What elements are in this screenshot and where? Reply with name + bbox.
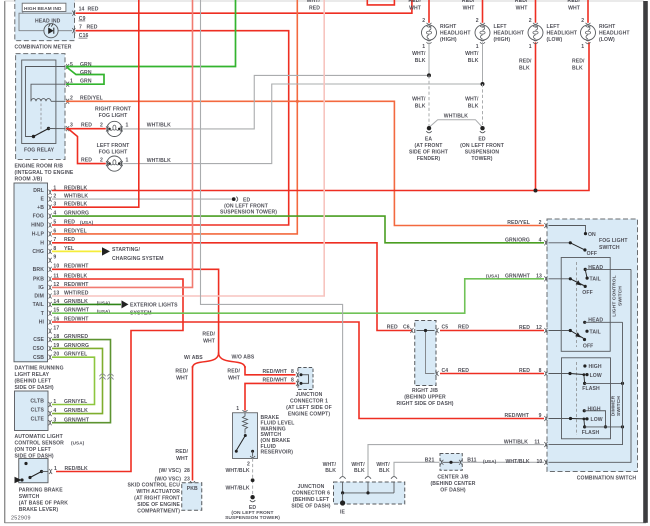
combination switch dashed box	[547, 219, 638, 472]
svg-text:HEADLIGHT: HEADLIGHT	[547, 31, 578, 37]
wire WHT/BLK center J/B to jc6	[394, 462, 440, 476]
comb sw pin 2 chevrons	[544, 223, 547, 228]
svg-text:ENGINE ROOM R/B: ENGINE ROOM R/B	[15, 163, 64, 169]
svg-text:IE: IE	[340, 509, 346, 515]
wire row2 E WHT/BLK to ground ED	[52, 198, 232, 200]
svg-text:FOG: FOG	[33, 214, 44, 220]
svg-text:COMBINATION METER: COMBINATION METER	[15, 44, 72, 50]
svg-text:8: 8	[539, 368, 542, 374]
cut stub red U at top	[367, 0, 394, 5]
page border top	[5, 0, 645, 2]
svg-text:RED/WHT: RED/WHT	[263, 369, 288, 375]
parking brake switch internals	[24, 462, 27, 465]
svg-text:JUNCTION: JUNCTION	[296, 392, 323, 398]
svg-text:RED: RED	[519, 325, 530, 331]
svg-text:1: 1	[476, 44, 479, 50]
svg-text:(AT FRONT: (AT FRONT	[415, 143, 444, 149]
svg-text:(LOW): (LOW)	[599, 37, 615, 43]
svg-text:(HIGH): (HIGH)	[494, 37, 511, 43]
dashed wire WHT/BLK to ED ground	[482, 84, 484, 127]
svg-text:RED/: RED/	[519, 59, 532, 65]
relay pin 5 connector	[66, 64, 69, 69]
wire high beam box to pin 14	[23, 12, 72, 14]
svg-text:1: 1	[53, 399, 56, 405]
relay pin 3 connector	[66, 126, 69, 131]
svg-text:LEFT: LEFT	[547, 24, 561, 30]
svg-text:RED: RED	[81, 157, 92, 163]
parking brake switch box	[19, 459, 48, 483]
svg-text:RED: RED	[519, 368, 530, 374]
svg-text:CONTROL SENSOR: CONTROL SENSOR	[15, 441, 65, 447]
svg-text:8: 8	[291, 369, 294, 375]
page border right thick bar	[643, 1, 648, 523]
relay coil	[31, 99, 51, 102]
parking brake ground arrow	[15, 477, 22, 483]
svg-text:2: 2	[100, 122, 103, 128]
svg-text:OFF: OFF	[582, 290, 593, 296]
svg-text:BLK: BLK	[354, 468, 365, 474]
svg-text:HIGH: HIGH	[589, 364, 602, 370]
svg-text:(BEHIND LEFT: (BEHIND LEFT	[15, 378, 52, 384]
svg-text:GRN/WHT: GRN/WHT	[505, 274, 531, 280]
svg-text:RED/: RED/	[175, 449, 188, 455]
wire WHT/BLK right front fog	[123, 75, 429, 128]
wire row3 +B RED/BLK to top	[52, 0, 139, 207]
bus head2 down to pin 11	[549, 322, 623, 444]
svg-text:9: 9	[539, 413, 542, 419]
svg-text:HEADLIGHT: HEADLIGHT	[599, 31, 630, 37]
relay wire pin 1 to coil	[31, 84, 66, 101]
svg-text:WHT/BLK: WHT/BLK	[147, 158, 171, 164]
svg-text:SWITCH: SWITCH	[19, 494, 40, 500]
wire row19 CSO GRN/ORG to CLTS	[52, 348, 103, 413]
svg-text:RIGHT SIDE OF DASH): RIGHT SIDE OF DASH)	[396, 401, 453, 407]
svg-text:1: 1	[422, 44, 425, 50]
svg-text:RIGHT FRONT: RIGHT FRONT	[95, 107, 132, 113]
lcs2 head to bus	[585, 321, 623, 323]
jc6 internal bus	[343, 492, 394, 494]
svg-text:GRN/BLK: GRN/BLK	[64, 408, 88, 414]
svg-text:CENTER J/B: CENTER J/B	[437, 474, 469, 480]
svg-text:(ON TOP LEFT: (ON TOP LEFT	[15, 447, 52, 453]
svg-text:RED/WHT: RED/WHT	[263, 378, 288, 384]
svg-text:FOG LIGHT: FOG LIGHT	[599, 238, 628, 244]
light control switch inner box	[561, 258, 610, 352]
svg-text:BRAKE LEVER): BRAKE LEVER)	[19, 507, 59, 513]
splice dot	[251, 478, 255, 482]
svg-text:RED: RED	[309, 5, 320, 11]
svg-text:1: 1	[529, 44, 532, 50]
svg-text:5: 5	[53, 219, 56, 225]
svg-text:8: 8	[291, 378, 294, 384]
center J/B internal bus	[443, 461, 460, 463]
junction connector 1 box	[298, 368, 313, 390]
svg-text:CHARGING SYSTEM: CHARGING SYSTEM	[112, 256, 164, 262]
svg-text:TAIL: TAIL	[33, 302, 44, 308]
svg-text:WHT/BLK: WHT/BLK	[506, 459, 530, 465]
wire row11 PKB RED/BLK to parking brake switch	[52, 279, 183, 472]
svg-text:ROOM J/B): ROOM J/B)	[15, 176, 43, 182]
relay wire pin 5 to switch common	[26, 67, 66, 137]
wire WHT/BLK from top to junction connector 6	[201, 0, 343, 476]
page border left	[4, 1, 6, 523]
svg-text:AUTOMATIC LIGHT: AUTOMATIC LIGHT	[15, 434, 64, 440]
relay switch arm	[34, 129, 49, 137]
svg-text:GRN/YEL: GRN/YEL	[64, 399, 87, 405]
svg-text:STARTING/: STARTING/	[112, 247, 140, 253]
C5 pin chevrons	[435, 328, 438, 333]
svg-text:GRN/ORG: GRN/ORG	[505, 237, 530, 243]
svg-text:BLK: BLK	[415, 58, 426, 64]
svg-text:HIGH BEAM IND: HIGH BEAM IND	[24, 6, 62, 11]
svg-text:WHT: WHT	[176, 376, 189, 382]
svg-text:WHT/: WHT/	[465, 97, 479, 103]
ABS split branches	[193, 353, 219, 369]
svg-text:2: 2	[422, 18, 425, 24]
ground bridge WHT/BLK	[429, 120, 483, 128]
wire W/ ABS branch down to skid control PKB	[192, 366, 194, 481]
wire row4 FOG GRN/ORG to combination switch pin 4	[52, 216, 544, 243]
right front fog light bulb	[106, 121, 123, 136]
svg-text:BLK: BLK	[572, 66, 583, 72]
svg-text:ED: ED	[478, 136, 485, 142]
svg-text:WHT: WHT	[409, 5, 422, 11]
wire RED/YEL relay pin2 across	[66, 101, 544, 225]
page border bottom	[5, 522, 647, 524]
svg-text:17: 17	[53, 325, 59, 331]
brake fluid level warning switch box	[233, 413, 258, 459]
splice symbol on CSE riser	[108, 374, 114, 380]
svg-text:28: 28	[184, 468, 190, 474]
ground ED symbol (fog relay)	[232, 197, 236, 201]
svg-text:RESERVOIR): RESERVOIR)	[261, 450, 294, 456]
svg-text:WHT: WHT	[463, 5, 476, 11]
svg-text:WHT/BLK: WHT/BLK	[444, 113, 468, 119]
center J/B box	[440, 454, 462, 471]
svg-text:H-LP: H-LP	[32, 232, 45, 238]
svg-text:(USA): (USA)	[80, 220, 94, 225]
svg-text:BRK: BRK	[33, 267, 45, 273]
svg-text:RED: RED	[387, 325, 398, 331]
comb sw pin 13 chevrons	[544, 276, 547, 281]
svg-text:RED/: RED/	[572, 59, 585, 65]
comb sw pin 12 chevrons	[544, 328, 547, 333]
svg-text:1: 1	[581, 44, 584, 50]
relay switch to pin 3	[49, 128, 66, 130]
svg-text:(INTEGRAL TO ENGINE: (INTEGRAL TO ENGINE	[15, 170, 74, 176]
svg-text:(AT LEFT SIDE OF: (AT LEFT SIDE OF	[286, 405, 332, 411]
lcs1 pivot and arm	[549, 278, 571, 280]
svg-text:COMBINATION SWITCH: COMBINATION SWITCH	[577, 476, 637, 482]
svg-text:PKB: PKB	[33, 277, 44, 283]
ground ED symbol headlights	[480, 126, 484, 130]
wire W/O ABS branch to junction connector 1 pin 8	[245, 366, 296, 375]
svg-text:WHT/BLK: WHT/BLK	[226, 486, 250, 492]
svg-text:(BEHIND UPPER: (BEHIND UPPER	[404, 395, 446, 401]
svg-text:(USA): (USA)	[71, 441, 85, 446]
brake fluid switch arm	[244, 434, 247, 437]
wire high beam ind to pin 14	[19, 11, 44, 31]
svg-text:CSO: CSO	[33, 346, 44, 352]
svg-text:23: 23	[184, 476, 190, 482]
svg-text:HIGH: HIGH	[588, 406, 601, 412]
svg-text:RED/: RED/	[462, 0, 475, 4]
svg-text:CLTE: CLTE	[31, 417, 45, 423]
svg-text:7 RED: 7 RED	[79, 25, 98, 31]
svg-text:FLASH: FLASH	[582, 430, 600, 436]
svg-text:2: 2	[529, 18, 532, 24]
wire GRN jog pin5 to pin1	[66, 67, 104, 84]
svg-text:SKID CONTROL ECU: SKID CONTROL ECU	[128, 482, 181, 488]
svg-text:(BEHIND CENTER: (BEHIND CENTER	[431, 481, 476, 487]
svg-text:CSB: CSB	[33, 355, 44, 361]
svg-text:CHG: CHG	[32, 249, 44, 255]
CLT pin chevrons	[49, 402, 52, 425]
left front fog light bulb	[106, 156, 123, 171]
DRL relay connector block	[14, 183, 48, 362]
dimmer switch inner box	[562, 358, 611, 439]
svg-text:LIGHT CONTROL: LIGHT CONTROL	[611, 275, 617, 317]
junction connector 6 box	[334, 482, 405, 504]
left headlight high bulb	[475, 18, 490, 50]
dimmer2 link to FLASH	[583, 418, 586, 421]
right headlight low bulb	[581, 18, 596, 50]
ground ED symbol brake fluid	[250, 495, 254, 499]
svg-text:CONNECTOR 6: CONNECTOR 6	[292, 490, 330, 496]
svg-text:FENDER): FENDER)	[417, 156, 441, 162]
svg-text:B21: B21	[425, 457, 435, 463]
wire GRN relay pin5 to top edge	[66, 0, 236, 67]
wire row12 IG RED/WHT from top	[52, 0, 193, 287]
comb sw pin 8 chevrons	[544, 371, 547, 376]
splice dot right high	[427, 73, 431, 77]
right J/B box	[415, 321, 436, 386]
C6 pin chevrons	[410, 328, 413, 333]
svg-text:LIGHT RELAY: LIGHT RELAY	[15, 372, 50, 378]
svg-text:LOW: LOW	[590, 373, 602, 379]
jc6 ground IE	[342, 493, 344, 502]
svg-text:SUSPENSION TOWER): SUSPENSION TOWER)	[225, 515, 280, 521]
svg-text:WHT/: WHT/	[307, 0, 321, 4]
wire row7 H RED to right J/B C6	[52, 243, 412, 331]
svg-text:LEFT FRONT: LEFT FRONT	[97, 143, 130, 149]
svg-text:BLK: BLK	[379, 468, 390, 474]
svg-text:11: 11	[534, 439, 540, 445]
svg-text:LEFT: LEFT	[494, 24, 508, 30]
wire row1 DRL RED/BLK to low beam headlights	[52, 42, 589, 190]
wire WHT/BLK left high to splice	[482, 42, 484, 84]
svg-text:TAIL: TAIL	[590, 330, 601, 336]
arrow starting/charging system	[102, 247, 110, 255]
lcs1 head to bus	[585, 268, 631, 270]
wire RED C5 to combination switch pin 12	[440, 330, 544, 332]
combination meter dashed box (cut at top)	[15, 0, 75, 41]
svg-text:RED: RED	[64, 219, 75, 225]
brake fluid pin 2 chevron	[250, 456, 255, 458]
wire junction connector 1 lower pin to brake fluid switch	[245, 383, 296, 410]
svg-text:(LOW): (LOW)	[547, 37, 563, 43]
svg-text:RED/BLK: RED/BLK	[65, 466, 89, 472]
svg-text:6: 6	[53, 228, 56, 234]
wire WHT/BLK left front fog	[123, 84, 482, 164]
wire row10 BRK RED/WHT to ABS split	[52, 269, 219, 353]
svg-text:WHT: WHT	[176, 456, 189, 462]
dimmer2 flash to bus	[585, 426, 623, 428]
wire row13 DIM WHT/RED from top	[52, 0, 324, 296]
svg-text:13: 13	[536, 274, 542, 280]
headlight feed RED left high	[482, 0, 484, 23]
svg-text:ON: ON	[588, 232, 596, 238]
svg-text:RED/: RED/	[408, 0, 421, 4]
jc1 pin chevrons	[296, 372, 299, 377]
svg-text:OFF: OFF	[587, 251, 598, 257]
svg-text:(HIGH): (HIGH)	[440, 37, 457, 43]
wire RED C4 to combination switch pin 8	[440, 373, 544, 375]
wire row8 CHG YEL to starting/charging arrow	[52, 250, 102, 252]
svg-text:WHT: WHT	[516, 5, 529, 11]
svg-text:DRL: DRL	[33, 188, 44, 194]
svg-text:4: 4	[53, 408, 56, 414]
wire RED branch to left front fog light	[69, 129, 106, 163]
svg-text:HEADLIGHT: HEADLIGHT	[494, 31, 525, 37]
lcs2 TAIL contact	[585, 330, 588, 333]
meter pin 14 connector	[72, 11, 75, 16]
wire RED relay pin3 to right front fog light	[66, 128, 106, 130]
wire WHT/BLK comb sw pin 11 to jc6	[368, 445, 544, 476]
lcs internal dashed divider	[576, 262, 578, 347]
lcs1 OFF contact	[584, 285, 587, 288]
svg-text:FLASH: FLASH	[582, 386, 600, 392]
svg-text:(USA): (USA)	[483, 459, 497, 464]
svg-text:(AT BASE OF PARK: (AT BASE OF PARK	[19, 500, 68, 506]
svg-text:HEADLIGHT: HEADLIGHT	[440, 31, 471, 37]
svg-text:CLTS: CLTS	[31, 408, 45, 414]
svg-text:1: 1	[126, 122, 129, 128]
svg-text:RIGHT: RIGHT	[440, 24, 457, 30]
wire RED/YEL riser to pin 6	[52, 0, 297, 234]
svg-text:SIDE OF DASH): SIDE OF DASH)	[291, 503, 330, 509]
svg-text:BLK: BLK	[468, 104, 479, 110]
svg-text:PARKING BRAKE: PARKING BRAKE	[19, 487, 63, 493]
svg-text:FOG LIGHT: FOG LIGHT	[99, 113, 128, 119]
svg-text:CONNECTOR 1: CONNECTOR 1	[290, 398, 328, 404]
lcs1 TAIL contact	[586, 277, 589, 280]
dimmer2 FLASH contact	[583, 425, 586, 428]
svg-text:RED/: RED/	[515, 0, 528, 4]
ON contact dot	[584, 232, 587, 235]
dimmer1 HIGH contact	[583, 364, 586, 367]
svg-text:W/ ABS: W/ ABS	[184, 355, 203, 361]
right headlight high bulb	[422, 18, 437, 50]
high beam ind box	[22, 3, 66, 11]
lcs1 HEAD contact and link	[584, 268, 587, 271]
wire row18 CSE GRN/RED to CLTE	[52, 340, 111, 423]
wire head ind lamp to pin 7	[58, 30, 72, 32]
svg-text:RED/YEL: RED/YEL	[64, 228, 87, 234]
wire 7 RED meter down to pin 5 RED (USA)	[52, 31, 289, 225]
fog switch pin2 to ON contact	[549, 226, 586, 233]
junction dot RED/YEL	[296, 100, 299, 103]
comb sw pin 10 chevrons	[544, 460, 547, 465]
wire row20 CSB GRN/YEL to CLTB	[52, 357, 95, 404]
svg-text:252909: 252909	[11, 516, 31, 522]
dimmer1 FLASH contact	[583, 382, 586, 385]
svg-text:TOWER): TOWER)	[471, 156, 492, 162]
svg-text:RED/: RED/	[227, 369, 240, 375]
svg-text:JUNCTION: JUNCTION	[298, 484, 325, 490]
svg-text:ENGINE COMPT): ENGINE COMPT)	[288, 411, 331, 417]
ground EA symbol	[427, 126, 431, 130]
junction dot low beams	[534, 189, 538, 193]
svg-text:CSE: CSE	[33, 337, 44, 343]
svg-text:WHT/BLK: WHT/BLK	[504, 439, 528, 445]
wire left low headlight drop	[535, 42, 537, 190]
jc1 internal bus	[301, 375, 309, 384]
svg-text:3: 3	[70, 122, 73, 128]
svg-text:BLK: BLK	[325, 468, 336, 474]
svg-text:WHT: WHT	[568, 5, 581, 11]
svg-text:B11: B11	[467, 457, 476, 463]
svg-text:2: 2	[476, 18, 479, 24]
relay armature dashed link	[40, 104, 42, 132]
svg-text:(USA): (USA)	[486, 274, 500, 279]
wire WHT/BLK right high to splice	[428, 42, 430, 75]
parking brake pin chevron	[49, 469, 52, 474]
dimmer1 LOW contact	[585, 373, 588, 376]
svg-text:1: 1	[126, 157, 129, 163]
svg-text:HIND: HIND	[31, 223, 44, 229]
dashed wire WHT/BLK to EA ground	[428, 75, 430, 126]
svg-text:H: H	[40, 240, 44, 246]
skid control ECU PKB box	[182, 483, 202, 511]
svg-text:WITH ACTUATOR: WITH ACTUATOR	[136, 489, 180, 495]
svg-text:HI: HI	[39, 320, 45, 326]
wire row14 TAIL GRN/BLK to exterior lights arrow	[52, 303, 121, 305]
svg-text:1: 1	[54, 466, 57, 472]
svg-text:RIGHT: RIGHT	[599, 24, 616, 30]
engine room R/B dashed box	[16, 54, 65, 160]
right J/B internal bus	[417, 330, 435, 332]
relay coil to pin 2	[51, 100, 66, 102]
svg-text:3: 3	[53, 417, 56, 423]
svg-text:SWITCH: SWITCH	[618, 286, 624, 306]
fog relay inner box	[22, 60, 56, 144]
svg-text:EXTERIOR LIGHTS: EXTERIOR LIGHTS	[130, 303, 178, 309]
svg-text:LOW: LOW	[591, 417, 603, 423]
connector pin chevrons rows 1-20	[49, 190, 52, 360]
svg-text:DIMMER: DIMMER	[610, 395, 616, 416]
svg-text:(AT RIGHT FRONT: (AT RIGHT FRONT	[134, 495, 181, 501]
splice dot left high	[481, 82, 485, 86]
brake fluid resistor	[243, 413, 248, 434]
svg-text:SIDE OF ENGINE: SIDE OF ENGINE	[137, 502, 180, 508]
splice symbol on CSO riser	[100, 374, 106, 380]
fog switch pivot and arm	[549, 242, 571, 244]
svg-text:RED/: RED/	[202, 331, 215, 337]
svg-text:WHT/: WHT/	[412, 51, 426, 57]
svg-text:COMPARTMENT): COMPARTMENT)	[137, 508, 180, 514]
svg-text:OFF: OFF	[583, 343, 594, 349]
svg-text:WHT/: WHT/	[465, 51, 479, 57]
svg-text:SIDE OF RIGHT: SIDE OF RIGHT	[409, 149, 449, 155]
svg-text:GRN/WHT: GRN/WHT	[64, 417, 90, 423]
svg-text:HEAD: HEAD	[588, 265, 603, 271]
headlight feed RED right low	[587, 0, 589, 23]
svg-text:WHT/: WHT/	[412, 97, 426, 103]
head indicator lamp symbol	[44, 24, 58, 38]
dimmer2 pivot and arm	[549, 418, 571, 420]
svg-text:FOG RELAY: FOG RELAY	[24, 148, 55, 154]
